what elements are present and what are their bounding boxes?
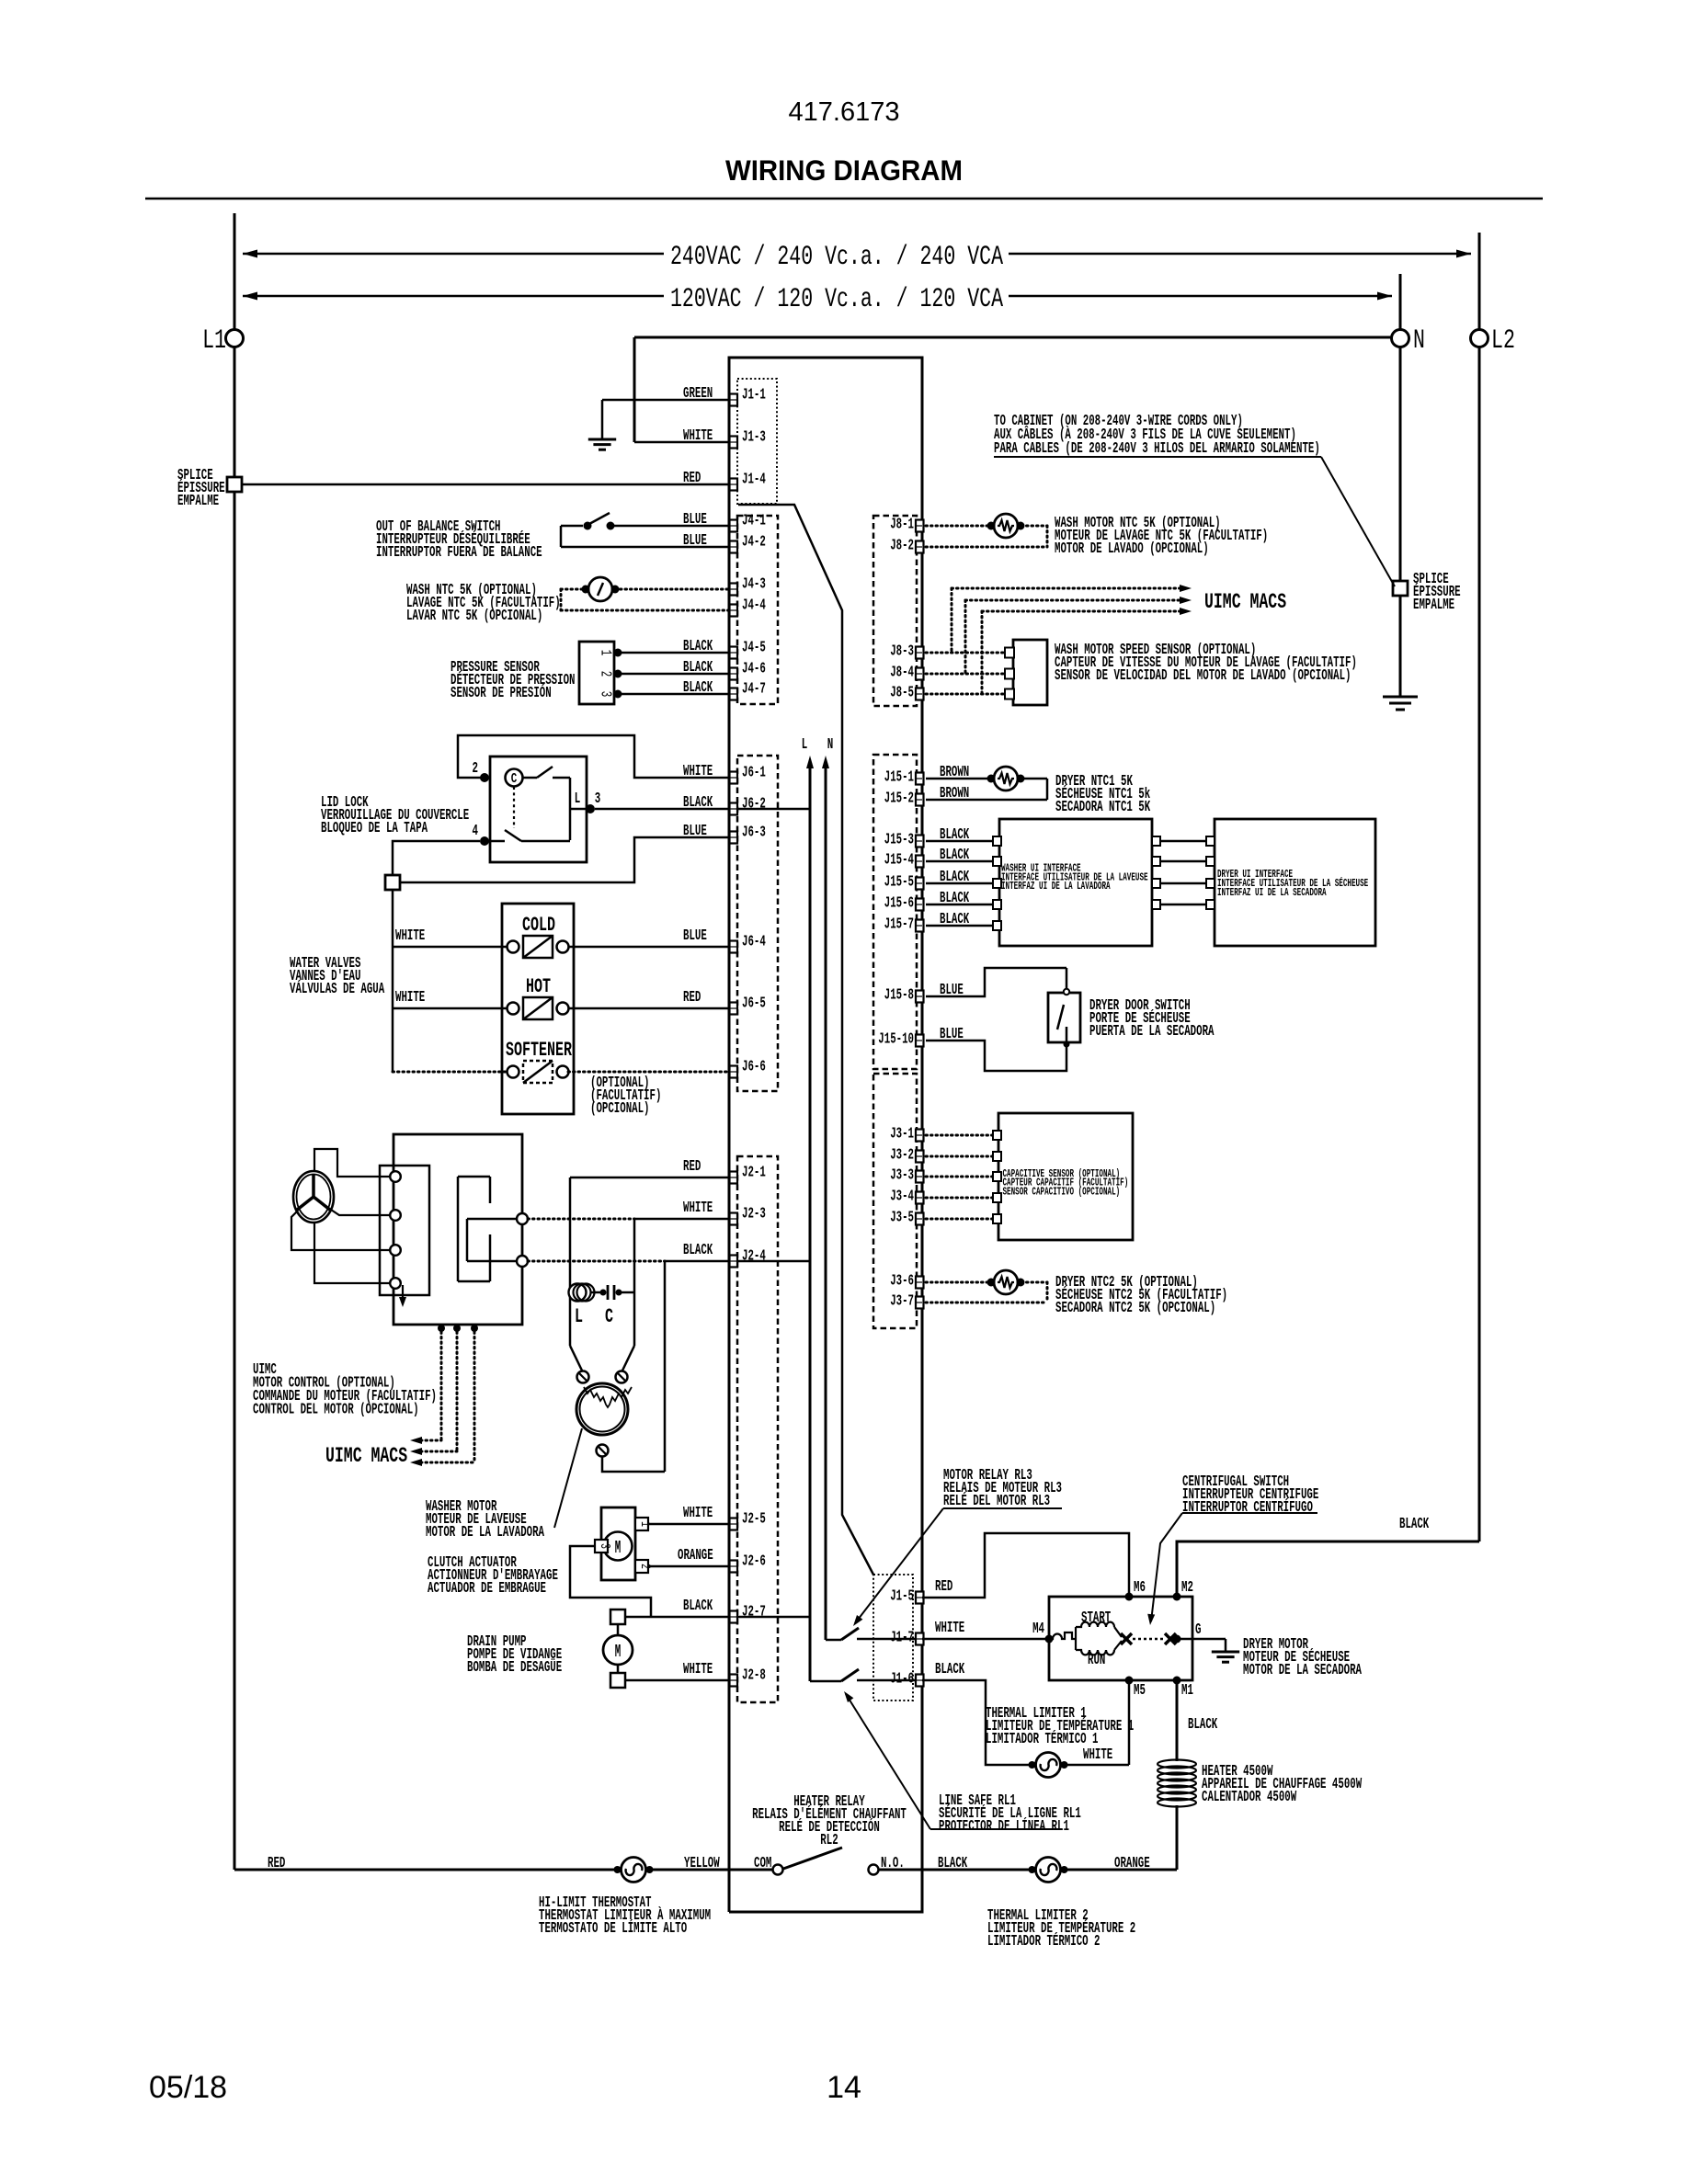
- svg-text:2: 2: [473, 760, 479, 778]
- svg-text:ACTUADOR DE EMBRAGUE: ACTUADOR DE EMBRAGUE: [428, 1580, 546, 1598]
- svg-text:BLACK: BLACK: [683, 1242, 713, 1259]
- splice lid lock: [385, 875, 400, 890]
- pin J1-7: [916, 1633, 924, 1645]
- wire BLACK from L2 to M2: [1177, 1541, 1479, 1597]
- svg-text:TERMOSTATO DE LÍMITE ALTO: TERMOSTATO DE LÍMITE ALTO: [539, 1919, 687, 1938]
- pin J1-6: [916, 1675, 924, 1687]
- svg-text:L: L: [575, 791, 581, 808]
- connector J1 lower box: [873, 1575, 913, 1701]
- pins J15-3 to J15-7 wires: [916, 836, 924, 847]
- svg-text:2: 2: [597, 671, 614, 677]
- svg-text:BLACK: BLACK: [1399, 1516, 1430, 1533]
- capacitor C: [590, 1291, 600, 1294]
- svg-text:BLACK: BLACK: [683, 638, 713, 655]
- svg-text:C: C: [511, 771, 518, 787]
- svg-text:BLUE: BLUE: [940, 982, 964, 999]
- hi-limit thermostat: [622, 1858, 646, 1883]
- svg-text:WHITE: WHITE: [1083, 1746, 1112, 1764]
- water valve box: [502, 904, 574, 1114]
- pin J8-5: [916, 688, 924, 700]
- wire BLUE to J6-3: [400, 837, 729, 882]
- terminal L1: [226, 330, 244, 347]
- svg-text:J1-4: J1-4: [742, 472, 766, 489]
- svg-text:J15-7: J15-7: [884, 916, 914, 934]
- motor relay RL3 contact: [826, 1639, 841, 1642]
- pin J3-6: [916, 1277, 924, 1289]
- impeller wiring to terminals: [314, 1149, 390, 1177]
- washer motor branch black: [664, 1261, 667, 1472]
- svg-text:BROWN: BROWN: [940, 785, 969, 802]
- svg-text:BLACK: BLACK: [683, 679, 713, 697]
- svg-text:1: 1: [597, 650, 614, 656]
- pin J2-6: [730, 1561, 738, 1573]
- svg-text:MOTOR DE LA LAVADORA: MOTOR DE LA LAVADORA: [426, 1524, 544, 1541]
- connector J15 box: [873, 755, 917, 1069]
- svg-text:J4-3: J4-3: [742, 576, 766, 594]
- svg-text:BLACK: BLACK: [940, 826, 970, 844]
- svg-text:MOTOR DE LAVADO (OPCIONAL): MOTOR DE LAVADO (OPCIONAL): [1055, 540, 1209, 558]
- washer motor branch right: [633, 1219, 636, 1346]
- svg-text:J2-7: J2-7: [742, 1604, 766, 1621]
- label 240VAC rail: [243, 250, 257, 258]
- pin J4-1: [730, 520, 738, 532]
- svg-text:PARA CABLES (DE 208-240V 3 HIL: PARA CABLES (DE 208-240V 3 HILOS DEL ARM…: [994, 440, 1320, 458]
- svg-text:M5: M5: [1134, 1682, 1146, 1700]
- wire internal trace J1-4 to J1-5: [738, 505, 873, 1575]
- impeller symbol: [293, 1171, 334, 1223]
- wire YELLOW to COM: [647, 1869, 773, 1871]
- svg-text:LIMITADOR TÉRMICO 1: LIMITADOR TÉRMICO 1: [986, 1730, 1099, 1748]
- svg-text:4: 4: [473, 823, 479, 840]
- splice left: [227, 477, 242, 492]
- connector J2 box: [737, 1156, 778, 1702]
- lid lock coil C: [506, 769, 523, 787]
- ground for GREEN: [588, 438, 616, 441]
- dryer motor box: [1049, 1597, 1192, 1680]
- svg-text:MOTOR DE LA SECADORA: MOTOR DE LA SECADORA: [1243, 1662, 1362, 1679]
- lid lock lower contact terminal 4: [480, 836, 489, 846]
- wire BLACK J2-4 to L rail: [528, 1260, 665, 1263]
- washer motor branch left: [569, 1177, 572, 1346]
- svg-text:L: L: [575, 1305, 583, 1328]
- svg-text:SECADORA NTC1 5K: SECADORA NTC1 5K: [1055, 799, 1151, 816]
- dryer door switch: [926, 968, 1066, 996]
- svg-text:M4: M4: [1032, 1621, 1044, 1638]
- svg-text:3: 3: [597, 1543, 612, 1549]
- wire WHITE J2-3: [528, 1218, 634, 1221]
- svg-text:RED: RED: [683, 1158, 701, 1176]
- motor control terminal strip: [380, 1166, 429, 1295]
- pin J2-4: [730, 1256, 738, 1268]
- pin J8-3: [916, 647, 924, 659]
- svg-text:J2-6: J2-6: [742, 1553, 766, 1571]
- svg-text:J6-6: J6-6: [742, 1059, 766, 1076]
- thermal limiter 2: [1036, 1858, 1061, 1883]
- inductor L: [569, 1284, 587, 1302]
- pin J15-2: [916, 794, 924, 806]
- svg-text:BLUE: BLUE: [683, 927, 707, 945]
- svg-text:J4-2: J4-2: [742, 534, 766, 552]
- dryer NTC1 5K: [926, 778, 990, 780]
- svg-text:PROTECTOR DE LÍNEA RL1: PROTECTOR DE LÍNEA RL1: [939, 1817, 1069, 1836]
- pin J6-2: [730, 803, 738, 815]
- svg-text:RED: RED: [935, 1578, 952, 1596]
- svg-text:L2: L2: [1491, 325, 1515, 357]
- pin J2-7: [730, 1611, 738, 1623]
- svg-text:WHITE: WHITE: [935, 1620, 964, 1637]
- svg-text:J15-2: J15-2: [884, 791, 914, 808]
- svg-text:J4-1: J4-1: [742, 513, 766, 530]
- pin J15-10: [916, 1035, 924, 1047]
- svg-text:UIMC MACS: UIMC MACS: [1204, 590, 1286, 614]
- pin J1-1: [730, 394, 738, 406]
- svg-text:J2-8: J2-8: [742, 1667, 766, 1685]
- svg-text:WHITE: WHITE: [683, 763, 713, 780]
- svg-text:240VAC / 240 Vc.a. / 240 VCA: 240VAC / 240 Vc.a. / 240 VCA: [670, 242, 1003, 273]
- pin J1-3: [730, 437, 738, 449]
- svg-text:WHITE: WHITE: [683, 1505, 713, 1522]
- pin J6-6: [730, 1066, 738, 1078]
- heater relay RL2 contact: [773, 1865, 783, 1875]
- wire RED J1-5 to M6: [922, 1533, 1129, 1598]
- pin J6-3: [730, 832, 738, 844]
- svg-text:GREEN: GREEN: [683, 385, 713, 403]
- svg-text:J3-1: J3-1: [890, 1126, 914, 1143]
- svg-text:J6-2: J6-2: [742, 796, 766, 813]
- svg-text:BLACK: BLACK: [940, 869, 970, 886]
- svg-text:RL2: RL2: [820, 1832, 838, 1849]
- wash motor speed sensor: [926, 652, 1005, 654]
- wash NTC 5K thermistor: [588, 577, 612, 601]
- svg-text:J8-4: J8-4: [890, 665, 914, 682]
- svg-text:ORANGE: ORANGE: [678, 1547, 713, 1564]
- svg-text:LAVAR NTC 5K (OPCIONAL): LAVAR NTC 5K (OPCIONAL): [406, 608, 542, 625]
- wire WHITE J2-5: [648, 1523, 729, 1526]
- svg-text:SENSOR CAPACITIVO (OPCIONAL): SENSOR CAPACITIVO (OPCIONAL): [1003, 1186, 1121, 1198]
- svg-text:J15-10: J15-10: [878, 1031, 914, 1049]
- lid lock upper contact: [523, 777, 537, 779]
- svg-text:PUERTA DE LA SECADORA: PUERTA DE LA SECADORA: [1089, 1023, 1215, 1041]
- pin J8-1: [916, 520, 924, 532]
- svg-text:INTERRUPTOR FUERA DE BALANCE: INTERRUPTOR FUERA DE BALANCE: [376, 544, 542, 562]
- pin J6-4: [730, 941, 738, 953]
- svg-text:L1: L1: [202, 325, 226, 357]
- dryer NTC2 5K: [926, 1281, 990, 1284]
- wire WHITE to J1-3: [634, 441, 729, 444]
- svg-text:J15-5: J15-5: [884, 874, 914, 892]
- svg-text:WHITE: WHITE: [683, 427, 713, 445]
- washer motor: [570, 1346, 582, 1371]
- pin J8-4: [916, 668, 924, 680]
- svg-text:M: M: [615, 1642, 622, 1662]
- svg-text:COM: COM: [754, 1855, 771, 1872]
- svg-text:M6: M6: [1134, 1579, 1146, 1597]
- pin J4-6: [730, 668, 738, 680]
- svg-text:J6-5: J6-5: [742, 995, 766, 1013]
- UI interconnect wires: [1152, 836, 1160, 846]
- svg-text:RED: RED: [683, 470, 701, 487]
- svg-text:WHITE: WHITE: [683, 1200, 713, 1217]
- svg-text:L: L: [802, 736, 808, 754]
- wire RED J2-1: [570, 1177, 729, 1179]
- pins J3-1 to J3-5 wires: [916, 1130, 924, 1142]
- connector J1 upper box: [737, 379, 777, 504]
- connector J3 box: [873, 1074, 917, 1328]
- svg-text:05/18: 05/18: [149, 2070, 227, 2105]
- header rule: [145, 198, 1543, 200]
- wire RED from splice to J1-4: [242, 483, 729, 486]
- svg-text:WIRING DIAGRAM: WIRING DIAGRAM: [725, 154, 963, 187]
- svg-text:N: N: [827, 736, 834, 754]
- svg-text:RUN: RUN: [1088, 1652, 1105, 1669]
- svg-text:BLACK: BLACK: [683, 659, 713, 677]
- pin J2-5: [730, 1519, 738, 1530]
- svg-text:J6-4: J6-4: [742, 934, 766, 951]
- lid lock wire terminal 2 to J6-1 WHITE: [458, 735, 729, 778]
- line safe RL1 contact: [810, 1680, 841, 1683]
- dryer motor protector and windings: [1049, 1632, 1076, 1639]
- splice right: [1393, 581, 1408, 596]
- terminal L2: [1478, 233, 1481, 329]
- svg-text:J3-4: J3-4: [890, 1189, 914, 1206]
- svg-text:BLACK: BLACK: [940, 890, 970, 907]
- svg-text:START: START: [1081, 1610, 1111, 1627]
- svg-text:3: 3: [595, 791, 601, 808]
- svg-text:G: G: [1195, 1621, 1202, 1639]
- clutch pin3 wire to J2-7 line: [570, 1546, 651, 1617]
- pin J2-8: [730, 1675, 738, 1687]
- svg-text:J1-3: J1-3: [742, 429, 766, 447]
- pin J1-4: [730, 479, 738, 491]
- connector J4 box: [737, 516, 778, 704]
- lid lock box: [490, 756, 587, 862]
- svg-text:J4-5: J4-5: [742, 640, 766, 657]
- out of balance switch: [560, 526, 563, 547]
- svg-text:SENSOR DE PRESIÓN: SENSOR DE PRESIÓN: [451, 684, 552, 702]
- svg-text:J2-5: J2-5: [742, 1511, 766, 1529]
- svg-text:120VAC / 120 Vc.a. / 120 VCA: 120VAC / 120 Vc.a. / 120 VCA: [670, 284, 1003, 315]
- pin J4-4: [730, 605, 738, 617]
- dryer UI interface box: [1215, 819, 1375, 946]
- svg-text:HOT: HOT: [526, 975, 551, 998]
- connector J8 box: [873, 516, 917, 706]
- heater 4500W coil: [1176, 1680, 1179, 1761]
- svg-text:INTERFAZ UI DE LA SECADORA: INTERFAZ UI DE LA SECADORA: [1217, 887, 1327, 899]
- UIMC MACS dotted outputs right: [951, 588, 953, 653]
- svg-text:J2-1: J2-1: [742, 1165, 766, 1182]
- svg-text:C: C: [605, 1305, 613, 1328]
- inner connector shape: [457, 1177, 460, 1281]
- svg-text:BLUE: BLUE: [683, 511, 707, 529]
- svg-text:M2: M2: [1181, 1579, 1193, 1597]
- svg-text:UIMC MACS: UIMC MACS: [325, 1444, 407, 1468]
- svg-text:J6-3: J6-3: [742, 825, 766, 842]
- svg-text:J1-1: J1-1: [742, 387, 766, 404]
- svg-text:VÁLVULAS DE AGUA: VÁLVULAS DE AGUA: [290, 980, 385, 998]
- label 120VAC rail: [243, 292, 257, 301]
- drain pump: [610, 1610, 625, 1624]
- svg-text:CALENTADOR 4500W: CALENTADOR 4500W: [1202, 1789, 1297, 1806]
- svg-text:BLACK: BLACK: [683, 1598, 713, 1615]
- svg-text:BLACK: BLACK: [938, 1855, 968, 1872]
- svg-text:BLOQUEO DE LA TAPA: BLOQUEO DE LA TAPA: [321, 820, 428, 837]
- svg-text:RED: RED: [268, 1855, 285, 1872]
- pin J4-5: [730, 647, 738, 659]
- svg-text:J15-8: J15-8: [884, 987, 914, 1005]
- node N internal rail: [822, 756, 829, 768]
- wire BLACK to thermal limiter 2: [879, 1869, 1032, 1871]
- svg-text:J8-3: J8-3: [890, 643, 914, 661]
- svg-text:J15-4: J15-4: [884, 852, 914, 870]
- wire BLACK J2-7 to L rail: [625, 1616, 810, 1619]
- lid lock terminal 3 L: [570, 808, 589, 811]
- svg-text:J4-7: J4-7: [742, 681, 766, 699]
- svg-text:J2-4: J2-4: [742, 1248, 766, 1266]
- svg-text:J4-4: J4-4: [742, 597, 766, 615]
- svg-text:J1-5: J1-5: [890, 1588, 914, 1606]
- svg-text:J15-3: J15-3: [884, 832, 914, 849]
- svg-text:14: 14: [827, 2070, 861, 2105]
- wire to G and ground: [1177, 1638, 1226, 1641]
- svg-text:BLACK: BLACK: [940, 847, 970, 864]
- svg-text:CONTROL DEL MOTOR (OPCIONAL): CONTROL DEL MOTOR (OPCIONAL): [253, 1402, 419, 1419]
- svg-text:BLUE: BLUE: [940, 1026, 964, 1043]
- pin J2-3: [730, 1213, 738, 1225]
- svg-text:WHITE: WHITE: [395, 927, 425, 945]
- svg-text:COLD: COLD: [522, 914, 555, 937]
- connector J6 box: [737, 756, 778, 1091]
- lid lock terminal 2: [480, 773, 489, 782]
- svg-text:J3-6: J3-6: [890, 1273, 914, 1291]
- svg-text:WHITE: WHITE: [395, 989, 425, 1007]
- svg-text:SECADORA NTC2 5K (OPCIONAL): SECADORA NTC2 5K (OPCIONAL): [1055, 1300, 1215, 1317]
- wire WHITE J1-7 to M4: [922, 1638, 1049, 1641]
- pin J6-5: [730, 1003, 738, 1015]
- svg-text:417.6173: 417.6173: [789, 97, 900, 127]
- centrifugal switch contacts: [1121, 1633, 1132, 1644]
- svg-text:BOMBA DE DESAGÜE: BOMBA DE DESAGÜE: [467, 1658, 562, 1677]
- wire BLACK J6-2 to L rail: [595, 808, 810, 811]
- wire L1 vertical rail: [234, 213, 236, 330]
- svg-text:ORANGE: ORANGE: [1114, 1855, 1150, 1872]
- svg-text:J8-5: J8-5: [890, 685, 914, 702]
- wire L2 rail down: [1478, 347, 1481, 1541]
- svg-text:M1: M1: [1181, 1682, 1193, 1700]
- wire WHITE J2-8: [625, 1679, 729, 1682]
- arrow inside control box: [402, 1285, 404, 1300]
- capacitive sensor box: [998, 1113, 1133, 1240]
- washer UI interface box: [999, 819, 1152, 946]
- svg-text:J6-1: J6-1: [742, 765, 766, 782]
- UIMC MACS dotted outputs left: [438, 1325, 445, 1332]
- wash motor NTC 5K: [926, 525, 990, 528]
- pin J4-3: [730, 584, 738, 596]
- washer motor annotation: [554, 1428, 582, 1528]
- svg-text:BROWN: BROWN: [940, 764, 969, 781]
- svg-text:BLUE: BLUE: [683, 532, 707, 550]
- thermal limiter 1: [922, 1680, 1032, 1765]
- svg-text:BLACK: BLACK: [1188, 1716, 1218, 1734]
- svg-text:BLUE: BLUE: [683, 823, 707, 840]
- terminal N: [1399, 274, 1402, 329]
- wire bottom L1 to thermostat: [234, 1869, 620, 1871]
- wire terminal 4 to left rail and splice: [393, 841, 480, 875]
- svg-text:3: 3: [597, 691, 614, 698]
- pin J4-2: [730, 541, 738, 553]
- node L internal rail: [806, 756, 814, 768]
- wire GREEN to J1-1: [602, 399, 729, 402]
- svg-text:N: N: [1413, 325, 1425, 357]
- clutch actuator: [601, 1507, 635, 1580]
- pin J6-1: [730, 772, 738, 784]
- svg-text:EMPALME: EMPALME: [177, 493, 219, 510]
- svg-text:J15-1: J15-1: [884, 769, 914, 787]
- svg-text:BLACK: BLACK: [683, 794, 713, 812]
- wire N rail down to splice and ground: [1399, 347, 1402, 580]
- svg-text:SOFTENER: SOFTENER: [506, 1039, 573, 1062]
- svg-text:LIMITADOR TÉRMICO 2: LIMITADOR TÉRMICO 2: [987, 1932, 1101, 1951]
- svg-text:J3-7: J3-7: [890, 1293, 914, 1311]
- svg-text:J8-2: J8-2: [890, 538, 914, 555]
- pin J8-2: [916, 541, 924, 553]
- svg-text:(OPCIONAL): (OPCIONAL): [590, 1100, 650, 1118]
- pressure sensor: [579, 642, 614, 704]
- svg-text:WHITE: WHITE: [683, 1661, 713, 1678]
- pin J2-1: [730, 1172, 738, 1184]
- pin J4-7: [730, 688, 738, 700]
- svg-text:J3-3: J3-3: [890, 1167, 914, 1185]
- svg-text:RED: RED: [683, 989, 701, 1007]
- svg-text:EMPALME: EMPALME: [1413, 597, 1454, 614]
- svg-text:J15-6: J15-6: [884, 895, 914, 913]
- svg-text:BLACK: BLACK: [935, 1661, 965, 1678]
- svg-text:J2-3: J2-3: [742, 1206, 766, 1223]
- svg-text:J4-6: J4-6: [742, 661, 766, 678]
- svg-text:J3-2: J3-2: [890, 1147, 914, 1165]
- svg-text:YELLOW: YELLOW: [684, 1855, 720, 1872]
- svg-text:BLACK: BLACK: [940, 911, 970, 928]
- control board main box: [729, 358, 922, 1912]
- UIMC motor control box: [393, 1134, 522, 1325]
- svg-text:SENSOR DE VELOCIDAD DEL MOTOR: SENSOR DE VELOCIDAD DEL MOTOR DE LAVADO …: [1055, 667, 1352, 685]
- svg-text:M: M: [615, 1538, 622, 1558]
- motor control output terminals: [517, 1213, 528, 1224]
- ground for N: [1383, 696, 1418, 699]
- pin J15-1: [916, 773, 924, 785]
- pin J15-8: [916, 991, 924, 1003]
- svg-text:INTERFAZ UI DE LA LAVADORA: INTERFAZ UI DE LA LAVADORA: [1001, 881, 1111, 893]
- wire N feed to control board: [634, 336, 1392, 339]
- pin J3-7: [916, 1297, 924, 1309]
- pin J1-5: [916, 1592, 924, 1604]
- wire ORANGE J2-6: [648, 1565, 729, 1568]
- svg-text:J3-5: J3-5: [890, 1210, 914, 1227]
- svg-text:J8-1: J8-1: [890, 517, 914, 534]
